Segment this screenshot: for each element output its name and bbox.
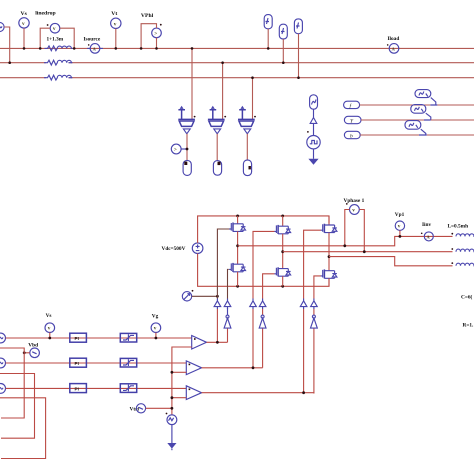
leg2 source wire [282, 276, 284, 286]
svg-text:Iinv: Iinv [422, 222, 431, 228]
voltmeter Vbd [23, 343, 40, 358]
source Va [415, 90, 437, 105]
svg-text:R=1.: R=1. [463, 323, 474, 329]
gating arrow G4 [224, 299, 231, 309]
gate wire leg2 upper [253, 231, 274, 367]
ammeter Iinv [421, 222, 433, 241]
wire row c continues [427, 134, 474, 136]
voltmeter Vt [111, 11, 121, 50]
phase A output wire [238, 236, 453, 245]
phase B output wire [283, 251, 453, 253]
wire row b to source Vb [361, 119, 424, 121]
MOSFET Q2 (leg2 upper) [282, 216, 284, 226]
gate wire leg2 lower [263, 274, 275, 368]
label capsule a [344, 101, 360, 109]
voltmeter Vp1 [395, 212, 405, 238]
svg-text:b: b [350, 134, 353, 140]
comparator U2 [186, 361, 201, 375]
limiter block 1 [120, 333, 136, 342]
bus B (phase b feeder) [0, 62, 46, 64]
wire bus B to PT unit 2 [222, 63, 224, 120]
dc source Vdc [162, 243, 203, 254]
limiter block 3 [120, 384, 136, 393]
inductor Lb [451, 248, 474, 252]
wire bus A to PT unit 1 [191, 48, 193, 119]
label capsule c [344, 131, 360, 139]
svg-text:v: v [48, 326, 51, 332]
label capsule b [344, 116, 361, 124]
svg-text:v: v [352, 208, 355, 214]
inductor La [448, 223, 474, 236]
reference source Vma (left edge, row 1) [0, 333, 192, 343]
triangle carrier distribution wire [172, 347, 192, 415]
svg-text:Vp1: Vp1 [395, 212, 405, 218]
wire capsule to buffer arrow [313, 109, 315, 117]
PT unit 1 [178, 106, 195, 134]
svg-text:v: v [114, 21, 117, 27]
top rail junction leg2 [281, 215, 284, 218]
NOT gate N3 [311, 315, 318, 328]
svg-text:>: > [154, 31, 157, 37]
svg-text:Vdc=500V: Vdc=500V [162, 246, 186, 252]
svg-text:PI: PI [75, 386, 79, 391]
wire row b continues [431, 119, 474, 121]
svg-text:Vs: Vs [46, 313, 52, 319]
reference source Vmc (left edge, row 3) [0, 384, 186, 394]
gating arrow G1 [214, 299, 221, 309]
leg1 source wire [237, 272, 239, 287]
source Vb [411, 105, 431, 120]
leg3 source wire [328, 278, 330, 286]
source VS1 (cut off at left edge) [0, 22, 11, 64]
comparator U1 output wire [207, 341, 228, 343]
svg-text:L=0.5mh: L=0.5mh [448, 223, 469, 229]
load capsule 2 [213, 161, 221, 176]
gate wire leg1 lower [228, 269, 229, 298]
voltmeter Vphase 1 [343, 198, 365, 253]
svg-text:v: v [22, 21, 25, 27]
top rail junction leg1 [236, 215, 239, 218]
ammeter Iload [387, 36, 399, 53]
gating arrow G6 [311, 299, 318, 309]
svg-text:Vphase 1: Vphase 1 [344, 198, 365, 204]
comparator U2 output wire [202, 367, 263, 369]
wire PT1 to load capsule [186, 134, 188, 161]
tri wire to U3 [172, 397, 186, 399]
dc bus bottom rail [198, 254, 329, 287]
PI block 1 [70, 333, 87, 342]
MOSFET Q3 (leg3 upper) [328, 216, 330, 225]
square-wave source [307, 131, 320, 149]
dc bus top rail [198, 216, 329, 243]
svg-text:>: > [174, 147, 177, 153]
ammeter Isource [84, 36, 104, 53]
gating arrow G3 [300, 299, 307, 309]
ground (right column) [308, 149, 318, 165]
feedback tap loop 2 [0, 374, 35, 439]
load capsule 1 [183, 160, 191, 175]
PI block 2 [70, 358, 87, 367]
ground (carrier source) [167, 425, 176, 451]
svg-text:Iload: Iload [388, 36, 400, 42]
wire PT3 to load capsule [246, 134, 248, 160]
sensor capsule S1 (drops to bus A) [264, 15, 272, 50]
inductor Lc [451, 262, 474, 266]
svg-text:Vs: Vs [21, 11, 28, 17]
leg3 mid wire + phase C node [328, 233, 330, 271]
svg-text:1+1.3m: 1+1.3m [47, 37, 64, 43]
lead stubs rows 2,3 [44, 63, 72, 78]
voltmeter Vtri [130, 404, 174, 413]
load capsule 3 [243, 160, 251, 176]
triangle wave source Vcar [166, 413, 177, 425]
svg-text:Vg: Vg [152, 314, 159, 320]
voltmeter linedrop [35, 11, 75, 50]
svg-text:v: v [53, 26, 56, 32]
svg-text:PI: PI [75, 336, 79, 341]
RL branch 1+1.3m (row 1) [45, 37, 73, 51]
bottom rail junction leg1 [236, 285, 239, 288]
svg-text:linedrop: linedrop [35, 11, 55, 17]
sensor capsule S2 (drops to bus B) [279, 24, 287, 64]
wire row a to source Va [360, 104, 431, 106]
gate wire leg3 upper [304, 230, 321, 393]
limiter block 2 [120, 358, 136, 367]
wire row a continues [437, 104, 474, 106]
RL branch (row 2) [46, 60, 72, 65]
tri wire to U2 [172, 371, 186, 373]
PT unit 2 [208, 106, 226, 134]
probe S1 [182, 290, 219, 301]
bottom rail junction leg2 [281, 285, 284, 288]
wire bus C to PT unit 3 [252, 78, 254, 120]
comparator U1 [192, 336, 207, 350]
NOT gate N2 [259, 315, 266, 328]
bus A (phase a feeder) [0, 47, 474, 49]
feedback tap loop 1 [0, 348, 24, 418]
comparator U3 output wire [202, 392, 314, 395]
svg-text:v: v [398, 224, 401, 230]
NOT gate N1 [224, 315, 231, 328]
svg-text:C=6(: C=6( [461, 294, 472, 301]
gate wire leg3 lower [314, 276, 321, 394]
RL branch (row 3) [46, 75, 72, 80]
wire arrow to square-wave source [313, 123, 315, 135]
svg-text:PI: PI [75, 361, 79, 366]
leg1 mid wire + phase A node [237, 231, 239, 264]
wire row c to source Vc [360, 134, 419, 136]
source Vc [405, 121, 427, 135]
sensor capsule S3 (drops to bus C) [294, 19, 302, 79]
gating arrow G5 [259, 299, 266, 309]
svg-text:VPhl: VPhl [141, 13, 154, 19]
PT unit 3 [238, 106, 256, 134]
feedback tap loop 3 [0, 398, 46, 459]
voltmeter Vs (control) [45, 313, 55, 339]
MOSFET Q1 (leg1 upper) [237, 216, 239, 224]
control chain: sensor capsule [310, 95, 318, 109]
svg-text:Isource: Isource [84, 36, 101, 42]
svg-text:v: v [154, 326, 157, 332]
comparator U3 [186, 386, 201, 400]
PI block 3 [70, 384, 87, 393]
svg-text:Vt: Vt [111, 11, 117, 17]
voltmeter VPhl [140, 13, 162, 50]
voltmeter probe at PT1 [171, 144, 188, 154]
gating arrow G2 [250, 299, 257, 309]
MOSFET Q5 (leg2 lower) [274, 267, 290, 276]
reference source Vmb (left edge, row 2) [0, 358, 186, 368]
voltmeter Vs (top) [19, 11, 29, 50]
voltmeter Vg [151, 314, 161, 340]
phase C output wire [329, 257, 453, 266]
MOSFET Q4 (leg1 lower) [229, 263, 245, 272]
buffer arrow [310, 118, 317, 124]
bus C (phase c feeder) [0, 77, 46, 79]
wire PT2 to load capsule [216, 134, 218, 161]
MOSFET Q6 (leg3 lower) [321, 269, 337, 278]
gate wire leg1 upper [217, 229, 229, 299]
leg2 mid wire + phase B node [282, 234, 284, 269]
